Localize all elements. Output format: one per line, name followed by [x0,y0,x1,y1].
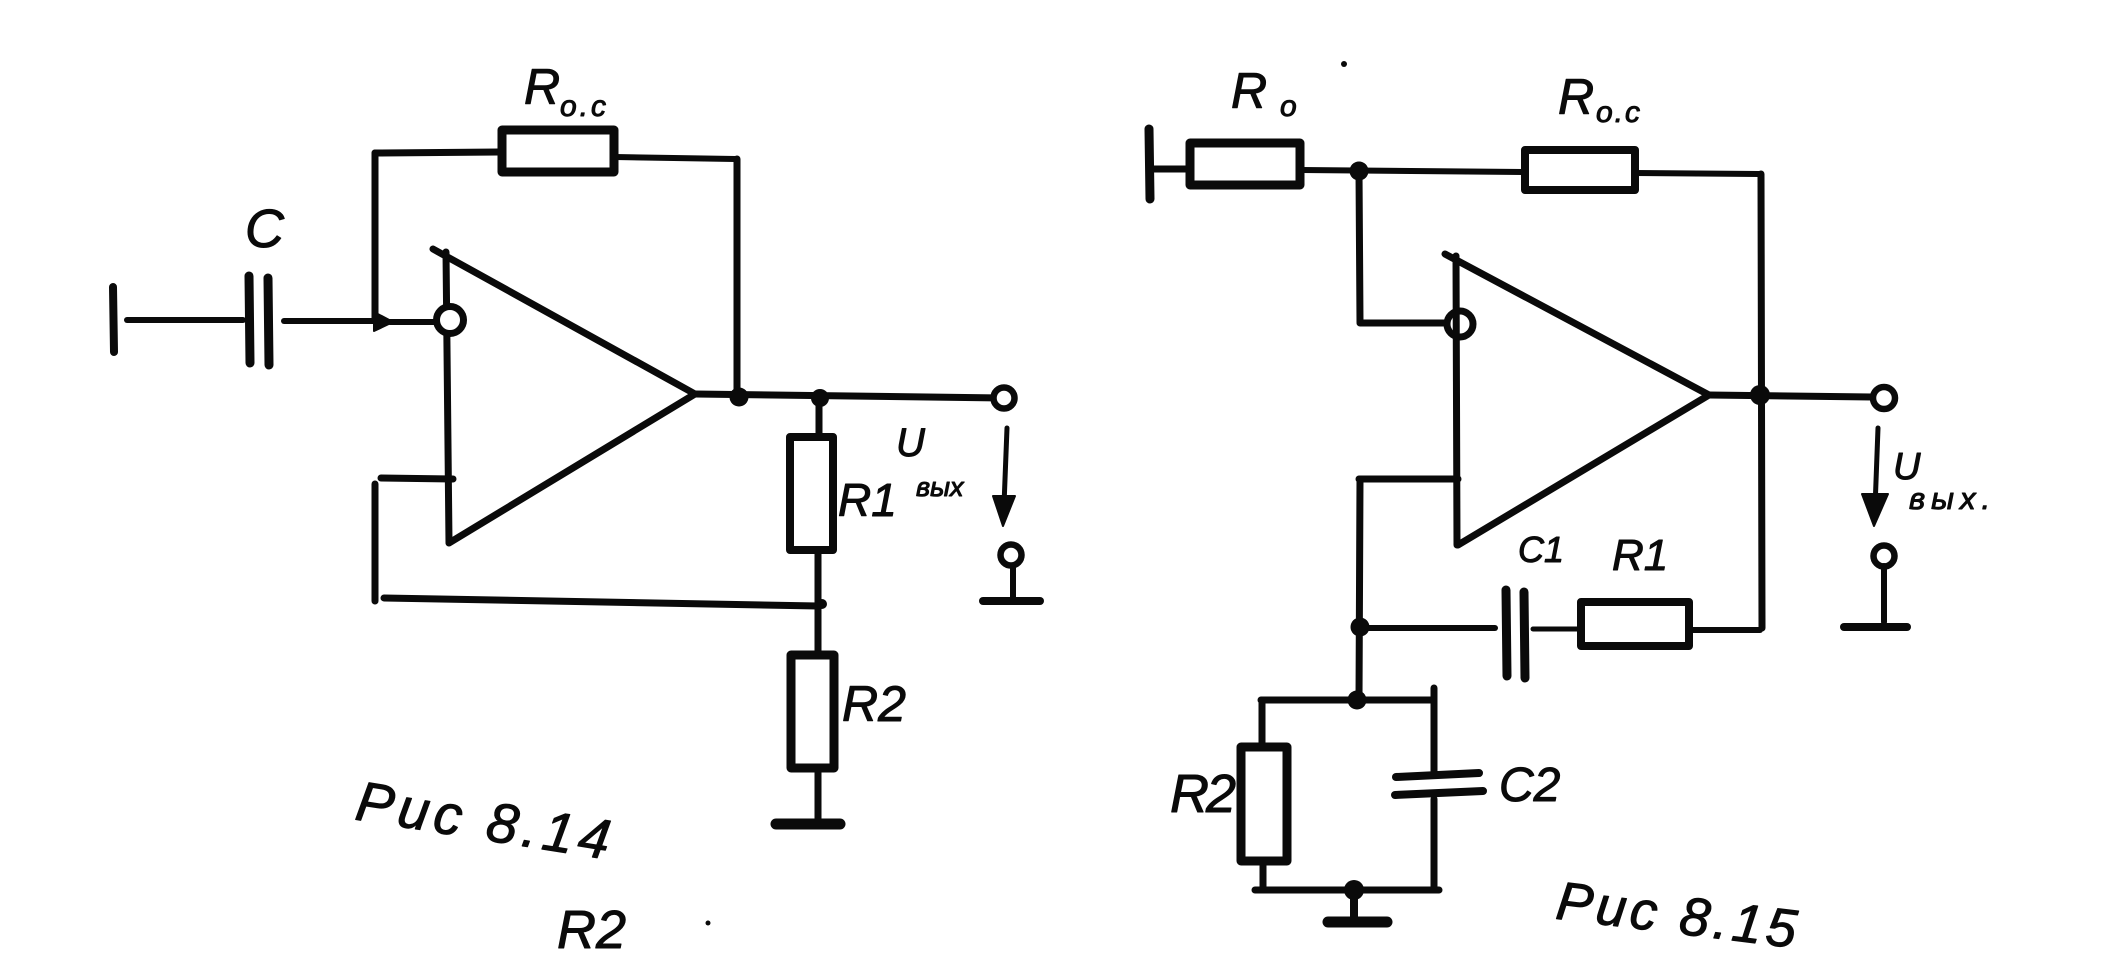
svg-text:R2: R2 [842,676,906,732]
svg-text:o.c: o.c [560,90,609,123]
feedback wire top horizontal [375,152,499,153]
resistor Ro [1190,143,1300,185]
svg-text:R1: R1 [838,474,897,526]
feedback right vertical wire [734,159,741,396]
caption Рис 8.15 [1553,871,1804,960]
junction dot R2C2 top node [1348,691,1367,710]
ground bar (right circuit) [1328,917,1387,928]
wire to inverting circle [1360,320,1447,327]
capacitor C1 [1506,590,1525,678]
wire output node to R1 [816,398,823,437]
wire R1 to R2 [815,550,822,655]
inverting input circle (left op-amp) [437,307,464,334]
wire node to C1 [1360,625,1495,631]
wire junction to inverting circle [390,319,439,325]
C2 branch vertical bottom [1431,799,1438,890]
terminal stem (left lower) [1010,567,1016,599]
svg-text:R: R [1231,63,1267,119]
stray ink dot bottom [706,921,711,926]
lower output terminal (left) [1001,545,1022,566]
output terminal circle (left) [994,388,1015,409]
caption Рис 8.14 [352,769,620,872]
non-inverting vertical wire (right) [1359,479,1360,700]
wire Ro.c to feedback right vertical [615,157,735,159]
op-amp U1 (left circuit) [433,249,695,543]
svg-text:вых: вых [916,472,965,502]
resistor Ro.c (left circuit) [502,130,614,172]
svg-text:U: U [896,421,926,465]
wire Ro to Ro.c with junction [1302,170,1523,172]
stray ink dot top [1341,61,1347,67]
resistor R1 (right circuit) [1581,602,1689,646]
wire C1 to R1 [1533,627,1579,632]
svg-text:R: R [1558,69,1594,125]
resistor R2 (left circuit) [791,655,834,768]
vertical wire to inverting input [1359,171,1360,322]
R2C2 top wire [1261,697,1434,704]
svg-text:R2: R2 [1170,764,1236,824]
svg-text:C: C [245,199,285,259]
wire C to inverting node [284,318,374,324]
wire Ro.c to output vertical [1635,173,1759,174]
wire R2 to bottom [1260,861,1267,890]
junction dot output-feedback [730,388,749,407]
input terminal bar (left circuit) [113,287,114,352]
wire input to capacitor C [127,317,243,323]
svg-text:o.c: o.c [1596,96,1642,129]
ground stem (right circuit) [1350,890,1358,918]
wire input to Ro [1152,166,1188,173]
junction dot ground node [1344,880,1364,900]
non-inverting input wire [381,478,453,479]
svg-text:C1: C1 [1518,529,1564,570]
svg-text:R: R [524,59,560,115]
feedback wire left vertical [372,153,379,319]
arrow U вых down (left) [1004,428,1007,505]
resistor R2 (right circuit) [1241,747,1287,861]
svg-text:вых.: вых. [1909,481,1996,516]
svg-text:o: o [1280,90,1297,123]
non-inverting vertical wire [372,484,379,601]
junction dot output (right) [1750,385,1770,405]
wire R2 to ground [815,768,822,820]
resistor Ro.c (right circuit) [1525,150,1635,190]
right vertical wire (feedback/output to R1) [1761,174,1762,628]
input terminal bar (right circuit) [1149,129,1150,199]
junction tick at R1-R2 node [817,599,827,609]
resistor R1 (left circuit) [790,437,833,550]
capacitor C2 [1395,773,1483,795]
ground bar (right output) [1844,623,1907,631]
arrow at inverting node [374,312,393,331]
svg-text:C2: C2 [1499,759,1560,812]
capacitor C [249,276,269,365]
non-inverting input wire (right) [1359,476,1458,483]
wire R1 to output vertical [1690,627,1760,633]
svg-text:R1: R1 [1612,531,1668,580]
ground bar (left circuit bottom) [776,819,840,830]
output wire (right circuit) [1709,395,1872,397]
op-amp U2 (right circuit) [1445,254,1709,545]
inverting input circle (right op-amp) [1447,311,1473,337]
lower output terminal (right) [1874,546,1895,567]
R2C2 bottom wire [1255,887,1439,894]
ground bar (left output) [983,597,1040,605]
R2 branch vertical top [1259,700,1266,747]
junction dot input node [1350,162,1369,181]
svg-text:R2: R2 [557,900,626,960]
junction dot output-R1 [811,389,829,407]
junction dot C1 node [1351,618,1370,637]
output wire (left circuit) [695,394,1003,398]
bottom feedback wire to R1-R2 node [384,598,818,606]
C2 branch vertical top [1431,688,1438,772]
output terminal circle (right) [1873,387,1895,409]
terminal stem (right lower) [1881,566,1887,622]
arrow U вых down (right) [1875,428,1878,508]
